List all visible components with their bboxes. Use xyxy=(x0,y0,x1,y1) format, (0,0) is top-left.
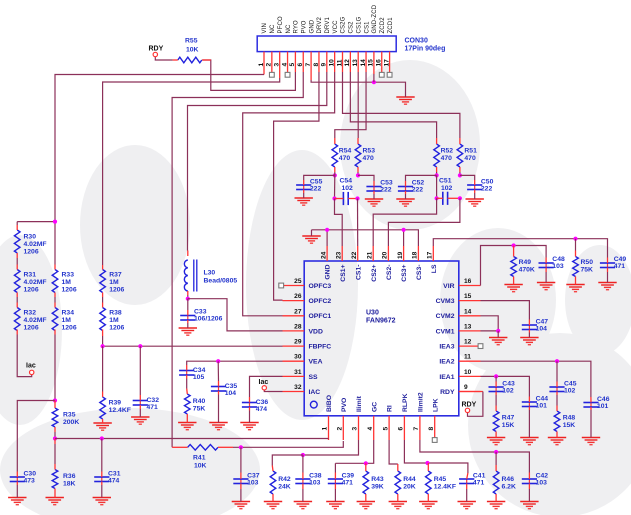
svg-text:OPFC3: OPFC3 xyxy=(309,283,332,290)
svg-text:Ilimit2: Ilimit2 xyxy=(418,392,425,412)
svg-text:R42: R42 xyxy=(278,476,291,483)
svg-text:R52: R52 xyxy=(441,148,454,155)
svg-text:R43: R43 xyxy=(371,476,384,483)
svg-text:104: 104 xyxy=(225,390,237,397)
svg-text:U30: U30 xyxy=(366,309,379,316)
svg-text:C49: C49 xyxy=(614,256,627,263)
svg-text:C31: C31 xyxy=(108,471,121,478)
svg-text:103: 103 xyxy=(247,480,259,487)
svg-text:1206: 1206 xyxy=(62,325,77,332)
svg-text:1M: 1M xyxy=(62,317,72,324)
svg-text:R32: R32 xyxy=(24,310,37,317)
svg-text:R31: R31 xyxy=(24,272,37,279)
svg-text:14: 14 xyxy=(464,308,472,315)
svg-text:C51: C51 xyxy=(439,177,452,184)
svg-text:75K: 75K xyxy=(193,406,206,413)
svg-text:L30: L30 xyxy=(204,270,216,277)
svg-text:39K: 39K xyxy=(371,484,384,491)
svg-text:102: 102 xyxy=(564,388,576,395)
svg-text:470K: 470K xyxy=(519,267,535,274)
svg-text:LS: LS xyxy=(431,264,438,273)
svg-text:RDY: RDY xyxy=(440,389,455,396)
svg-text:10: 10 xyxy=(464,369,472,376)
svg-text:102: 102 xyxy=(441,185,453,192)
svg-text:12.4KF: 12.4KF xyxy=(109,407,131,414)
svg-text:R38: R38 xyxy=(109,310,122,317)
svg-text:9: 9 xyxy=(464,384,468,391)
svg-text:R50: R50 xyxy=(581,259,594,266)
svg-text:20: 20 xyxy=(382,251,389,259)
svg-text:C36: C36 xyxy=(256,399,269,406)
svg-text:IEA3: IEA3 xyxy=(439,344,454,351)
svg-text:C34: C34 xyxy=(193,367,206,374)
svg-text:24K: 24K xyxy=(278,484,291,491)
svg-text:NC: NC xyxy=(270,24,276,33)
svg-text:R30: R30 xyxy=(24,234,37,241)
svg-text:CS3-: CS3- xyxy=(416,265,423,281)
svg-text:R41: R41 xyxy=(193,455,206,462)
svg-text:R45: R45 xyxy=(434,476,447,483)
svg-text:4: 4 xyxy=(367,427,374,431)
svg-text:1206: 1206 xyxy=(109,287,124,294)
svg-text:FBPFC: FBPFC xyxy=(309,344,332,351)
svg-text:10K: 10K xyxy=(186,47,199,54)
svg-text:R40: R40 xyxy=(193,398,206,405)
svg-text:102: 102 xyxy=(502,388,514,395)
svg-text:473: 473 xyxy=(24,478,36,485)
svg-text:DRV2: DRV2 xyxy=(317,16,323,33)
svg-text:470: 470 xyxy=(363,155,375,162)
svg-text:CS2G: CS2G xyxy=(341,16,347,33)
svg-text:471: 471 xyxy=(614,263,626,270)
svg-text:24: 24 xyxy=(320,251,327,259)
svg-text:101: 101 xyxy=(536,403,548,410)
svg-text:R46: R46 xyxy=(502,476,515,483)
svg-text:470: 470 xyxy=(441,155,453,162)
svg-text:R54: R54 xyxy=(339,148,352,155)
svg-text:1206: 1206 xyxy=(24,287,39,294)
svg-text:222: 222 xyxy=(412,187,424,194)
svg-text:R34: R34 xyxy=(62,310,75,317)
svg-text:CS1-: CS1- xyxy=(355,265,362,281)
svg-text:R53: R53 xyxy=(363,148,376,155)
svg-text:C37: C37 xyxy=(247,473,260,480)
svg-text:CS2-: CS2- xyxy=(386,265,393,281)
svg-text:R37: R37 xyxy=(109,272,122,279)
svg-text:101: 101 xyxy=(597,403,609,410)
svg-text:RLPK: RLPK xyxy=(402,393,409,412)
svg-text:VIN: VIN xyxy=(262,23,268,33)
svg-text:GND: GND xyxy=(325,264,332,279)
svg-text:CVM2: CVM2 xyxy=(436,313,455,320)
svg-text:4.02MF: 4.02MF xyxy=(24,279,47,286)
svg-text:CS1: CS1 xyxy=(364,21,370,34)
svg-text:C33: C33 xyxy=(194,309,207,316)
svg-text:GC: GC xyxy=(371,402,378,412)
svg-text:31: 31 xyxy=(294,369,302,376)
svg-text:471: 471 xyxy=(473,480,485,487)
svg-text:FAN9672: FAN9672 xyxy=(366,317,396,324)
svg-text:1206: 1206 xyxy=(24,325,39,332)
svg-text:470: 470 xyxy=(339,155,351,162)
svg-text:18K: 18K xyxy=(63,481,76,488)
svg-text:105: 105 xyxy=(193,374,205,381)
svg-text:R36: R36 xyxy=(63,473,76,480)
svg-text:3: 3 xyxy=(352,427,359,431)
svg-text:R49: R49 xyxy=(519,259,532,266)
svg-text:RYO: RYO xyxy=(294,20,300,34)
svg-text:R55: R55 xyxy=(185,38,198,45)
svg-text:PVO: PVO xyxy=(301,20,307,33)
svg-text:VDD: VDD xyxy=(309,328,323,335)
svg-text:ZCD2: ZCD2 xyxy=(380,17,386,34)
svg-text:C54: C54 xyxy=(340,177,353,184)
svg-text:PVO: PVO xyxy=(341,398,348,412)
svg-text:222: 222 xyxy=(481,186,493,193)
svg-text:PFCO: PFCO xyxy=(278,16,284,33)
svg-text:Iac: Iac xyxy=(26,363,36,370)
svg-text:C55: C55 xyxy=(310,179,323,186)
svg-text:Bead/0805: Bead/0805 xyxy=(204,278,238,285)
svg-text:222: 222 xyxy=(310,186,322,193)
svg-text:VEA: VEA xyxy=(309,359,323,366)
svg-text:VIR: VIR xyxy=(443,283,454,290)
svg-text:C42: C42 xyxy=(536,473,549,480)
svg-text:474: 474 xyxy=(256,406,268,413)
svg-text:30: 30 xyxy=(294,354,302,361)
svg-text:C46: C46 xyxy=(597,396,610,403)
svg-text:17: 17 xyxy=(427,251,434,259)
svg-text:15K: 15K xyxy=(502,422,515,429)
svg-text:C53: C53 xyxy=(380,180,393,187)
svg-text:BIBO: BIBO xyxy=(326,395,333,412)
svg-text:IEA1: IEA1 xyxy=(439,374,454,381)
svg-text:NC: NC xyxy=(286,24,292,33)
svg-text:CS1+: CS1+ xyxy=(340,264,347,281)
svg-text:C43: C43 xyxy=(502,381,515,388)
svg-text:1206: 1206 xyxy=(24,249,39,256)
svg-text:1206: 1206 xyxy=(109,325,124,332)
svg-text:11: 11 xyxy=(464,354,471,361)
svg-text:RDY: RDY xyxy=(149,46,164,53)
svg-text:C30: C30 xyxy=(24,471,37,478)
svg-text:222: 222 xyxy=(380,187,392,194)
svg-text:1: 1 xyxy=(322,427,329,431)
svg-text:CON30: CON30 xyxy=(405,37,428,44)
svg-text:IAC: IAC xyxy=(309,389,321,396)
svg-text:R47: R47 xyxy=(502,415,515,422)
svg-text:474: 474 xyxy=(108,478,120,485)
svg-text:R44: R44 xyxy=(403,476,416,483)
svg-text:CS2+: CS2+ xyxy=(371,264,378,281)
svg-text:DRV1: DRV1 xyxy=(325,16,331,33)
svg-text:1M: 1M xyxy=(109,317,119,324)
svg-text:5: 5 xyxy=(382,427,389,431)
svg-text:28: 28 xyxy=(294,323,302,330)
svg-text:471: 471 xyxy=(147,404,159,411)
svg-text:25: 25 xyxy=(294,278,302,285)
svg-text:C39: C39 xyxy=(342,473,355,480)
svg-text:4.02MF: 4.02MF xyxy=(24,317,47,324)
svg-text:C48: C48 xyxy=(552,256,565,263)
svg-text:7: 7 xyxy=(413,427,420,431)
svg-text:R51: R51 xyxy=(464,148,477,155)
svg-text:R48: R48 xyxy=(563,415,576,422)
svg-text:8: 8 xyxy=(428,427,435,431)
svg-text:200K: 200K xyxy=(63,419,79,426)
svg-text:22: 22 xyxy=(351,251,358,259)
svg-text:23: 23 xyxy=(335,251,342,259)
svg-text:C47: C47 xyxy=(536,319,549,326)
svg-text:ZCD1: ZCD1 xyxy=(388,17,394,34)
svg-text:1M: 1M xyxy=(62,279,72,286)
svg-text:C50: C50 xyxy=(481,179,494,186)
svg-text:CS3+: CS3+ xyxy=(401,264,408,281)
svg-text:21: 21 xyxy=(366,251,373,259)
svg-text:103: 103 xyxy=(536,480,548,487)
svg-text:16: 16 xyxy=(464,278,472,285)
svg-text:26: 26 xyxy=(294,293,302,300)
svg-text:C41: C41 xyxy=(473,473,486,480)
svg-text:20K: 20K xyxy=(403,484,416,491)
svg-text:C38: C38 xyxy=(309,473,322,480)
svg-text:75K: 75K xyxy=(581,267,594,274)
svg-text:OPFC2: OPFC2 xyxy=(309,298,332,305)
svg-text:13: 13 xyxy=(464,323,472,330)
svg-text:12.4KF: 12.4KF xyxy=(434,484,456,491)
svg-text:C35: C35 xyxy=(225,383,238,390)
svg-text:2: 2 xyxy=(337,427,344,431)
svg-text:29: 29 xyxy=(294,339,302,346)
svg-text:6: 6 xyxy=(398,427,405,431)
svg-text:27: 27 xyxy=(294,308,302,315)
svg-text:15K: 15K xyxy=(563,422,576,429)
svg-text:19: 19 xyxy=(397,251,404,259)
svg-text:103: 103 xyxy=(552,263,564,270)
svg-text:R35: R35 xyxy=(63,412,76,419)
svg-text:IEA2: IEA2 xyxy=(439,359,454,366)
svg-text:32: 32 xyxy=(294,384,302,391)
svg-text:6.2K: 6.2K xyxy=(502,484,516,491)
svg-text:103: 103 xyxy=(309,480,321,487)
svg-text:18: 18 xyxy=(412,251,419,259)
svg-text:CVM3: CVM3 xyxy=(436,298,455,305)
svg-text:Ilimit: Ilimit xyxy=(356,395,363,412)
svg-text:OPFC1: OPFC1 xyxy=(309,313,332,320)
svg-text:R39: R39 xyxy=(109,400,122,407)
svg-text:RI: RI xyxy=(387,405,394,412)
svg-text:102: 102 xyxy=(342,185,354,192)
svg-text:GND: GND xyxy=(309,19,315,33)
svg-text:RDY: RDY xyxy=(462,401,477,408)
svg-text:10K: 10K xyxy=(194,462,207,469)
svg-text:17Pin 90deg: 17Pin 90deg xyxy=(405,45,446,52)
svg-text:R33: R33 xyxy=(62,272,75,279)
svg-text:CVM1: CVM1 xyxy=(436,328,455,335)
svg-text:CS1G: CS1G xyxy=(356,16,362,33)
svg-text:GND-ZCD: GND-ZCD xyxy=(372,4,378,33)
svg-text:106/1206: 106/1206 xyxy=(194,316,223,323)
svg-text:VCC: VCC xyxy=(333,20,339,34)
svg-text:104: 104 xyxy=(536,326,548,333)
svg-text:15: 15 xyxy=(464,293,472,300)
svg-text:SS: SS xyxy=(309,374,319,381)
svg-text:LPK: LPK xyxy=(432,398,439,412)
svg-text:C32: C32 xyxy=(147,397,160,404)
svg-text:CS2: CS2 xyxy=(349,21,355,34)
svg-text:12: 12 xyxy=(464,339,472,346)
svg-text:C44: C44 xyxy=(536,396,549,403)
svg-text:Iac: Iac xyxy=(259,379,269,386)
svg-text:C52: C52 xyxy=(412,180,425,187)
svg-text:471: 471 xyxy=(342,480,354,487)
svg-text:C45: C45 xyxy=(564,381,577,388)
svg-text:470: 470 xyxy=(464,155,476,162)
svg-text:4.02MF: 4.02MF xyxy=(24,241,47,248)
svg-text:1M: 1M xyxy=(109,279,119,286)
svg-text:1206: 1206 xyxy=(62,287,77,294)
